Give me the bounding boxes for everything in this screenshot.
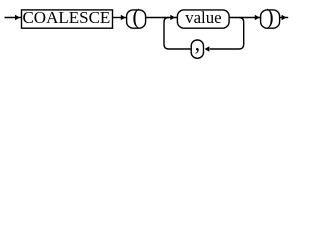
wire ( to value <box>146 17 178 19</box>
terminal , <box>191 30 203 58</box>
svg-text:COALESCE: COALESCE <box>22 8 110 27</box>
arrowhead into , (pointing left) <box>205 46 210 51</box>
wire exit line <box>280 17 289 19</box>
arrowhead into ) <box>255 15 260 20</box>
wire COALESCE to ( <box>113 17 127 19</box>
loop wire (repeat branch down-left through comma) <box>164 18 244 50</box>
wire entry line <box>5 17 22 19</box>
arrowhead into ( <box>121 15 126 20</box>
svg-text:,: , <box>195 30 201 55</box>
terminal ) <box>261 4 280 29</box>
arrowhead into COALESCE <box>15 15 20 20</box>
svg-text:value: value <box>185 8 221 27</box>
arrowhead into value <box>170 15 175 20</box>
wire value to ) <box>229 17 261 19</box>
svg-text:): ) <box>266 4 273 29</box>
keyword box COALESCE <box>22 8 113 28</box>
nonterminal value <box>177 8 229 28</box>
svg-text:(: ( <box>132 4 139 29</box>
terminal ( <box>127 4 146 29</box>
arrowhead exit <box>282 15 287 20</box>
